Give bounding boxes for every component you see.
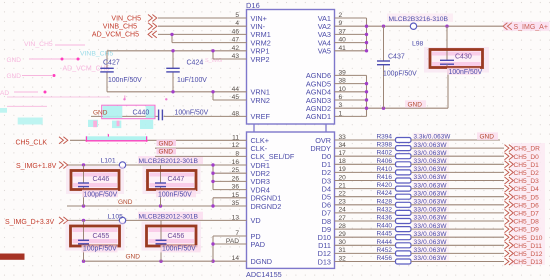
svg-text:S_IMG+1.8V: S_IMG+1.8V — [16, 163, 57, 170]
svg-text:L98: L98 — [412, 41, 424, 48]
svg-text:33/0.063W: 33/0.063W — [414, 247, 448, 254]
svg-text:VA5: VA5 — [318, 47, 331, 56]
svg-text:42: 42 — [232, 45, 240, 52]
svg-text:C447: C447 — [168, 176, 185, 183]
svg-text:43: 43 — [232, 53, 240, 60]
svg-text:C440: C440 — [133, 110, 150, 117]
svg-text:28: 28 — [339, 223, 347, 230]
svg-text:CH5_D6: CH5_D6 — [514, 202, 540, 209]
svg-text:VREF: VREF — [251, 112, 271, 121]
svg-text:R398: R398 — [376, 142, 392, 149]
svg-text:MLCB2B2012-301B: MLCB2B2012-301B — [139, 158, 199, 165]
svg-text:100pF/50V: 100pF/50V — [84, 191, 118, 198]
svg-text:R402: R402 — [376, 150, 392, 157]
svg-text:11: 11 — [232, 134, 239, 141]
svg-text:CH5_D10: CH5_D10 — [514, 235, 543, 242]
svg-text:R410: R410 — [376, 166, 392, 173]
svg-text:R432: R432 — [376, 206, 392, 213]
svg-text:3: 3 — [339, 102, 343, 109]
svg-text:33/0.063W: 33/0.063W — [414, 150, 448, 157]
svg-text:C446: C446 — [93, 176, 110, 183]
svg-text:AD: AD — [0, 90, 9, 97]
svg-text:32: 32 — [339, 255, 347, 262]
svg-text:R406: R406 — [376, 158, 392, 165]
svg-text:R428: R428 — [376, 198, 392, 205]
svg-text:29: 29 — [339, 231, 347, 238]
svg-text:CH5_D1: CH5_D1 — [514, 162, 540, 169]
svg-text:VIN_CH5: VIN_CH5 — [24, 41, 53, 48]
svg-text:C427: C427 — [103, 59, 120, 66]
svg-text:AD_VCM_CH5: AD_VCM_CH5 — [92, 32, 139, 39]
svg-text:GND: GND — [480, 134, 495, 141]
svg-text:L105: L105 — [108, 213, 123, 220]
svg-text:AGND1: AGND1 — [306, 112, 331, 121]
svg-text:15: 15 — [232, 192, 240, 199]
svg-text:C456: C456 — [168, 233, 185, 240]
svg-text:8: 8 — [235, 150, 239, 157]
svg-text:C437: C437 — [388, 53, 405, 60]
svg-text:33/0.063W: 33/0.063W — [414, 199, 448, 206]
svg-text:R445: R445 — [376, 231, 392, 238]
svg-text:VD: VD — [251, 216, 261, 225]
svg-text:48: 48 — [232, 110, 240, 117]
svg-text:D13: D13 — [318, 257, 331, 266]
svg-text:CH5_DR: CH5_DR — [514, 146, 541, 153]
svg-text:CH5_D3: CH5_D3 — [514, 178, 540, 185]
svg-text:CH5_D5: CH5_D5 — [514, 194, 540, 201]
svg-text:33/0.063W: 33/0.063W — [414, 207, 448, 214]
svg-text:C430: C430 — [455, 53, 472, 60]
svg-text:100nF/50V: 100nF/50V — [175, 110, 209, 117]
svg-text:27: 27 — [339, 215, 347, 222]
svg-text:26: 26 — [232, 175, 240, 182]
svg-text:GND: GND — [7, 73, 22, 80]
svg-text:17: 17 — [339, 150, 347, 157]
svg-text:R394: R394 — [376, 134, 392, 141]
svg-text:CH5_D2: CH5_D2 — [514, 170, 540, 177]
svg-text:R444: R444 — [376, 239, 392, 246]
svg-text:4: 4 — [235, 20, 239, 27]
svg-text:R424: R424 — [376, 190, 392, 197]
svg-text:VINB_CH5: VINB_CH5 — [103, 24, 137, 31]
svg-text:9: 9 — [339, 20, 343, 27]
svg-text:33/0.063W: 33/0.063W — [414, 239, 448, 246]
svg-text:CH5_D13: CH5_D13 — [514, 259, 543, 266]
svg-text:CH5_D4: CH5_D4 — [514, 186, 540, 193]
svg-text:L101: L101 — [101, 158, 116, 165]
svg-text:R420: R420 — [376, 182, 392, 189]
svg-text:CH5_D7: CH5_D7 — [514, 211, 540, 218]
svg-text:R436: R436 — [376, 215, 392, 222]
svg-text:100pF/50V: 100pF/50V — [383, 71, 417, 78]
svg-text:CH5_D8: CH5_D8 — [514, 219, 540, 226]
svg-text:R416: R416 — [376, 174, 392, 181]
svg-text:33/0.063W: 33/0.063W — [414, 142, 448, 149]
svg-text:GND: GND — [159, 140, 174, 147]
svg-text:MLCB2B2012-301B: MLCB2B2012-301B — [139, 213, 199, 220]
svg-text:3.3k/0.063W: 3.3k/0.063W — [414, 134, 451, 141]
svg-text:GND: GND — [7, 57, 22, 64]
svg-text:100nF/50V: 100nF/50V — [162, 245, 196, 252]
svg-text:46: 46 — [232, 28, 240, 35]
svg-text:MLCB2B3216-310B: MLCB2B3216-310B — [389, 16, 449, 23]
svg-text:GND: GND — [159, 149, 174, 156]
svg-text:22: 22 — [339, 191, 347, 198]
svg-text:CH5_CLK: CH5_CLK — [16, 139, 48, 146]
svg-text:18: 18 — [339, 158, 347, 165]
svg-text:33/0.063W: 33/0.063W — [414, 166, 448, 173]
svg-text:D16: D16 — [246, 1, 260, 10]
svg-text:1: 1 — [339, 110, 343, 117]
svg-text:R452: R452 — [376, 247, 392, 254]
svg-text:33/0.063W: 33/0.063W — [414, 223, 448, 230]
svg-text:100nF/50V: 100nF/50V — [108, 77, 142, 84]
svg-text:33/0.063W: 33/0.063W — [414, 231, 448, 238]
svg-text:13: 13 — [232, 214, 240, 221]
svg-text:CH5_D12: CH5_D12 — [514, 251, 543, 258]
svg-text:7: 7 — [235, 230, 239, 237]
svg-text:14: 14 — [232, 255, 240, 262]
svg-text:34: 34 — [339, 142, 347, 149]
svg-text:2: 2 — [339, 12, 343, 19]
svg-text:33/0.063W: 33/0.063W — [414, 215, 448, 222]
svg-text:19: 19 — [339, 166, 347, 173]
svg-text:100nF/50V: 100nF/50V — [449, 69, 483, 76]
svg-text:38: 38 — [339, 78, 347, 85]
svg-text:ADC14155: ADC14155 — [246, 270, 282, 279]
svg-text:33/0.063W: 33/0.063W — [414, 158, 448, 165]
svg-text:CH5_D9: CH5_D9 — [514, 227, 540, 234]
svg-text:GND: GND — [408, 102, 423, 109]
svg-text:C424: C424 — [187, 59, 204, 66]
svg-text:44: 44 — [232, 86, 240, 93]
svg-text:5: 5 — [235, 12, 239, 19]
svg-text:10: 10 — [339, 86, 347, 93]
svg-text:39: 39 — [339, 69, 347, 76]
svg-text:S_IMG_A+: S_IMG_A+ — [514, 24, 548, 31]
svg-text:6: 6 — [339, 94, 343, 101]
svg-text:R456: R456 — [376, 255, 392, 262]
svg-text:VRP2: VRP2 — [251, 55, 270, 64]
svg-text:21: 21 — [339, 182, 347, 189]
svg-text:1uF/100V: 1uF/100V — [177, 77, 207, 84]
svg-text:VIN_CH5: VIN_CH5 — [111, 15, 141, 22]
svg-text:100nF/50V: 100nF/50V — [158, 191, 192, 198]
svg-text:33: 33 — [339, 134, 347, 141]
svg-text:CH5_D11: CH5_D11 — [514, 243, 543, 250]
svg-text:GND: GND — [126, 254, 141, 261]
svg-text:40: 40 — [339, 37, 347, 44]
svg-text:DGND: DGND — [251, 257, 273, 266]
svg-text:45: 45 — [232, 94, 240, 101]
svg-text:47: 47 — [232, 37, 240, 44]
svg-text:30: 30 — [339, 239, 347, 246]
svg-text:VINB_CH5: VINB_CH5 — [80, 51, 113, 58]
svg-text:PAD: PAD — [251, 240, 265, 249]
svg-text:24: 24 — [339, 207, 347, 214]
svg-text:33/0.063W: 33/0.063W — [414, 190, 448, 197]
svg-text:20: 20 — [339, 174, 347, 181]
svg-text:35: 35 — [232, 200, 240, 207]
svg-text:25: 25 — [232, 167, 240, 174]
svg-text:PAD: PAD — [226, 238, 239, 245]
svg-text:R440: R440 — [376, 223, 392, 230]
svg-text:41: 41 — [339, 45, 347, 52]
svg-text:33/0.063W: 33/0.063W — [414, 174, 448, 181]
svg-text:16: 16 — [232, 159, 240, 166]
svg-text:37: 37 — [339, 28, 347, 35]
svg-text:33/0.063W: 33/0.063W — [414, 255, 448, 262]
svg-text:C455: C455 — [93, 233, 110, 240]
svg-text:GND: GND — [93, 110, 108, 117]
svg-text:GND: GND — [118, 199, 133, 206]
svg-text:36: 36 — [232, 184, 240, 191]
svg-text:12: 12 — [232, 142, 240, 149]
svg-text:23: 23 — [339, 199, 347, 206]
svg-text:CH5_D0: CH5_D0 — [514, 154, 540, 161]
svg-text:VRN2: VRN2 — [251, 96, 270, 105]
svg-text:100pF/50V: 100pF/50V — [83, 245, 117, 252]
svg-text:33/0.063W: 33/0.063W — [414, 182, 448, 189]
svg-text:31: 31 — [339, 247, 347, 254]
svg-text:DRGND2: DRGND2 — [251, 202, 282, 211]
svg-text:S_IMG_D+3.3V: S_IMG_D+3.3V — [5, 219, 55, 226]
